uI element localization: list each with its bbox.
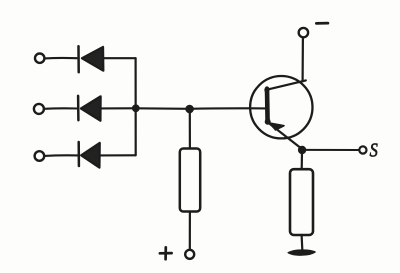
wire terminal1 to D1 bbox=[45, 57, 77, 60]
resistor R1 bbox=[180, 149, 200, 212]
diode D3 bbox=[79, 142, 100, 168]
diode D1 bbox=[79, 46, 104, 72]
wire terminal2 to D2 bbox=[44, 107, 78, 110]
wire node B to transistor base bbox=[190, 107, 266, 110]
minus sign label bbox=[316, 22, 328, 25]
ground bbox=[288, 250, 315, 255]
wire node to S terminal bbox=[305, 149, 358, 151]
wire collector to minus terminal bbox=[302, 37, 304, 81]
wire node S down to R2 bbox=[301, 152, 303, 169]
svg-text:S: S bbox=[370, 139, 378, 161]
input terminal 1 bbox=[35, 54, 44, 63]
input terminal 3 bbox=[35, 151, 45, 161]
wire R1 to plus terminal bbox=[189, 212, 191, 250]
wire terminal3 to D3 bbox=[44, 154, 78, 157]
wire D2 to bus junction bbox=[101, 107, 136, 109]
junction bus node bbox=[132, 104, 140, 112]
input terminal 2 bbox=[34, 104, 44, 114]
wire bus to node B bbox=[136, 107, 190, 110]
wire diode bus vertical bbox=[135, 58, 137, 155]
wire R2 to ground bbox=[301, 235, 304, 249]
wire D3 to bus bbox=[100, 154, 136, 156]
label S bbox=[370, 139, 378, 161]
plus sign label bbox=[160, 247, 172, 259]
minus terminal circle bbox=[299, 28, 308, 37]
diode D2 bbox=[78, 96, 101, 121]
junction node B bbox=[185, 105, 194, 114]
junction node S bbox=[298, 146, 306, 154]
wire node B down to R1 bbox=[189, 109, 191, 148]
terminal S circle bbox=[359, 146, 366, 153]
transistor Q1 bbox=[250, 76, 312, 149]
resistor R2 bbox=[290, 169, 313, 235]
wire D1 to bus bbox=[103, 57, 135, 59]
plus terminal circle bbox=[185, 250, 194, 259]
